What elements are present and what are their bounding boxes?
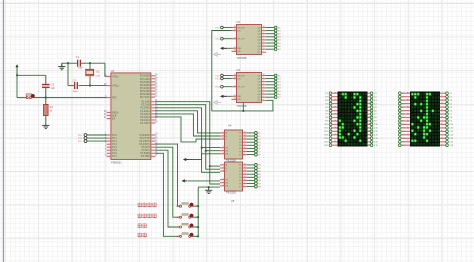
svg-text:74HC595: 74HC595	[237, 105, 248, 108]
svg-text:U3: U3	[237, 68, 241, 72]
svg-text:12M: 12M	[95, 76, 99, 78]
wire buttons common rail to ground	[197, 187, 199, 236]
ground below R1	[45, 122, 47, 125]
U3 right pins	[262, 75, 267, 77]
U4 left pins	[220, 132, 225, 134]
svg-text:P3.5/T1: P3.5/T1	[142, 150, 151, 152]
svg-text:P3.4/T0: P3.4/T0	[142, 147, 151, 149]
wire ground rail to U5 E3	[198, 186, 220, 188]
sheet border (blue)	[2, 0, 4, 262]
svg-text:MR: MR	[238, 96, 242, 98]
led matrix DM1 body	[338, 92, 368, 147]
svg-text:30pF: 30pF	[73, 91, 79, 93]
push button KEY4	[177, 235, 180, 237]
wire junction to U4 E2	[205, 150, 207, 152]
wire P3 pin to button 4	[155, 153, 177, 236]
svg-text:P1.6: P1.6	[112, 153, 117, 155]
svg-text:P2.0/A8: P2.0/A8	[142, 101, 151, 104]
U3 left pins	[232, 75, 237, 77]
mcu U1 right pins	[151, 75, 155, 77]
mcu U1 left pins	[107, 75, 111, 77]
svg-text:74HC595: 74HC595	[237, 57, 248, 60]
svg-text:P2.2/A10: P2.2/A10	[140, 107, 150, 110]
node U3 OE drop junction	[242, 103, 244, 111]
svg-text:P3.0/RXD: P3.0/RXD	[139, 135, 150, 137]
node button junction	[197, 235, 199, 237]
svg-text:ST_CP: ST_CP	[238, 39, 246, 41]
svg-text:U4: U4	[228, 124, 232, 128]
svg-text:ALE: ALE	[112, 114, 117, 117]
svg-text:Q7': Q7'	[257, 100, 261, 102]
U2 output terminals	[266, 27, 274, 29]
wire VCC rail	[16, 68, 18, 98]
svg-text:P2.7/A15: P2.7/A15	[140, 122, 150, 125]
svg-text:P1.1: P1.1	[112, 138, 117, 140]
svg-text:ST_CP: ST_CP	[238, 87, 246, 89]
wire gnd branch down to xtal2 rail	[67, 63, 69, 85]
svg-text:P3.7/RD: P3.7/RD	[141, 156, 150, 158]
led matrix DM2 dots	[411, 93, 414, 96]
svg-text:P1.0: P1.0	[112, 135, 117, 137]
power arrow U2 MR	[220, 47, 223, 50]
svg-text:X1: X1	[96, 69, 100, 73]
svg-text:XTAL1: XTAL1	[112, 75, 120, 78]
svg-text:AT89C51: AT89C51	[111, 160, 122, 164]
node button junction	[197, 216, 199, 218]
U2 right pins	[262, 27, 267, 29]
svg-text:P1.7: P1.7	[112, 156, 117, 158]
svg-text:P0.2/AD2: P0.2/AD2	[140, 81, 151, 84]
svg-text:P0.4/AD4: P0.4/AD4	[140, 87, 151, 90]
svg-text:P1.4: P1.4	[112, 147, 117, 149]
svg-text:P2.1/A9: P2.1/A9	[142, 104, 151, 107]
svg-text:P3.1/TXD: P3.1/TXD	[140, 138, 150, 140]
wire cascade U3 Q7 to U2 DS	[212, 31, 273, 111]
wire P2.0 to U5 A and E2	[155, 102, 220, 184]
ground at U5	[208, 187, 210, 190]
label chinese button 2	[138, 214, 142, 219]
svg-text:XTAL2: XTAL2	[112, 85, 120, 88]
svg-text:MR: MR	[238, 48, 242, 50]
wire P2.5 to U4 C	[155, 117, 220, 142]
svg-text:30pF: 30pF	[78, 68, 84, 70]
node RST junction	[45, 97, 47, 99]
node gnd branch junction	[67, 62, 69, 64]
svg-text:PSEN: PSEN	[112, 112, 119, 114]
node button junction	[197, 226, 199, 228]
svg-text:P3.6/WR: P3.6/WR	[140, 153, 150, 155]
wire P3 pin to button 3	[155, 150, 177, 227]
svg-text:P0.7/AD7: P0.7/AD7	[140, 96, 151, 99]
label chinese button 3	[138, 223, 142, 228]
wire top xtal rail	[62, 62, 77, 64]
capacitor C2 inline	[74, 82, 75, 89]
svg-text:U2: U2	[237, 20, 241, 24]
svg-text:SH_CP: SH_CP	[238, 27, 246, 29]
node button junction	[197, 205, 199, 207]
svg-text:RST: RST	[112, 98, 117, 100]
wire P2.1 to U5 B	[155, 105, 220, 170]
U2 left pins	[232, 27, 237, 29]
power arrow U2 OE pale	[214, 53, 217, 57]
led matrix DM2 body	[410, 92, 440, 147]
svg-text:C3: C3	[51, 82, 55, 86]
svg-text:R1: R1	[50, 105, 54, 109]
svg-text:P0.5/AD5: P0.5/AD5	[140, 90, 151, 93]
svg-text:P3.2/INT0: P3.2/INT0	[139, 141, 150, 143]
svg-text:74LS138: 74LS138	[226, 192, 236, 195]
power VCC arrow	[15, 64, 18, 67]
U2 input terminals	[224, 27, 232, 29]
wire C1 to XTAL1 corner	[81, 62, 105, 64]
svg-text:OE: OE	[238, 99, 242, 101]
U5 left pins	[220, 164, 225, 166]
led matrix DM1 dots	[339, 93, 341, 95]
svg-text:DS: DS	[238, 78, 242, 80]
ground crystal caps	[61, 63, 63, 67]
U3 input terminals	[224, 75, 232, 77]
svg-text:P1.3: P1.3	[112, 144, 117, 146]
label chinese button 1	[138, 203, 142, 208]
svg-text:P2.4/A12: P2.4/A12	[140, 113, 150, 116]
svg-text:SH_CP: SH_CP	[238, 75, 246, 77]
svg-text:P0.1/AD1: P0.1/AD1	[140, 78, 151, 81]
label chinese button 4	[138, 233, 142, 238]
push button RESET	[17, 97, 23, 99]
power arrow to U4 E3	[183, 158, 186, 161]
svg-text:P0.0/AD0: P0.0/AD0	[140, 75, 151, 78]
svg-text:1uF: 1uF	[51, 87, 56, 90]
wire XTAL2 rail	[68, 85, 74, 87]
capacitor C3	[45, 75, 47, 84]
wire RST to MCU	[46, 97, 107, 99]
power arrow U3 MR	[220, 95, 223, 98]
svg-text:U1: U1	[111, 69, 115, 73]
U4 right pins and terminals	[243, 132, 248, 134]
svg-text:P2.6/A14: P2.6/A14	[140, 119, 150, 122]
svg-text:U5: U5	[231, 199, 235, 203]
svg-text:P3.3/INT1: P3.3/INT1	[139, 144, 150, 146]
power arrow to U5 E1	[182, 179, 185, 182]
push button KEY2	[177, 216, 180, 218]
U3 output terminals	[266, 75, 274, 77]
wire P2.3 to U4 A	[155, 111, 220, 133]
wire P3 pin to button 2	[155, 147, 177, 217]
svg-text:C1: C1	[76, 55, 80, 59]
svg-text:DS: DS	[238, 30, 242, 32]
wire junction to U4 E1	[201, 147, 203, 149]
svg-text:Q7': Q7'	[257, 52, 261, 54]
push button KEY3	[177, 226, 180, 228]
wire P2.2 to U5 C	[155, 108, 220, 173]
push button KEY1	[177, 205, 180, 207]
svg-text:OE: OE	[238, 51, 242, 53]
resistor R1	[45, 98, 47, 105]
capacitor C1	[77, 60, 78, 67]
U5 right pins and terminals	[243, 164, 248, 166]
svg-text:P2.3/A11: P2.3/A11	[140, 110, 150, 113]
svg-text:P1.5: P1.5	[112, 150, 117, 152]
svg-text:P0.6/AD6: P0.6/AD6	[140, 93, 151, 96]
svg-text:EA: EA	[112, 118, 116, 121]
wire P3 pin to button 1	[155, 144, 177, 206]
svg-text:P2.5/A13: P2.5/A13	[140, 116, 150, 119]
svg-text:P0.3/AD3: P0.3/AD3	[140, 84, 151, 87]
svg-text:P1.2: P1.2	[112, 141, 117, 143]
wire P2.4 to U4 B	[155, 114, 220, 136]
power arrow U3 OE pale	[214, 101, 217, 105]
crystal X1	[86, 70, 94, 74]
mcu U1 AT89C51 body	[111, 73, 151, 159]
